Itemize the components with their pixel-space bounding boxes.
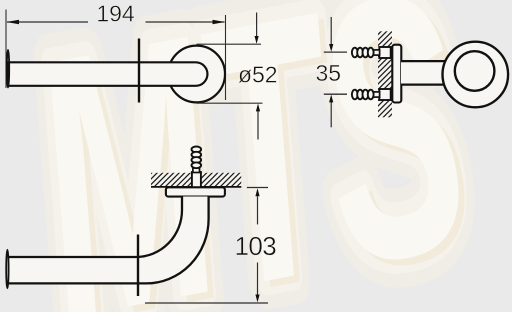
dim 103 up arrow: [257, 196, 259, 224]
dia52 up arrow: [257, 111, 259, 140]
extension line right: [225, 15, 227, 100]
wall disc circle: [168, 46, 225, 103]
rod end cap: [7, 50, 9, 88]
svg-text:194: 194: [96, 1, 135, 27]
dia52 top tangent line: [197, 43, 262, 45]
dim 35 down arrow: [330, 17, 332, 45]
arrowhead right: [213, 20, 226, 25]
dimension line 194: [7, 21, 225, 23]
dim 103 down arrow: [257, 263, 259, 295]
dim 35 up arrow: [330, 102, 332, 127]
cross line: [137, 235, 139, 297]
wall hatch: [151, 173, 241, 187]
wall plate (bottom view): [166, 187, 225, 196]
extension line left: [5, 10, 7, 89]
arrowhead left: [7, 20, 20, 25]
rod end cap: [6, 250, 8, 288]
ring inner: [455, 51, 495, 91]
bent tube fill: [9, 197, 209, 284]
arm fill: [401, 62, 451, 83]
arm lines: [402, 61, 451, 85]
dim 103 bottom extension line: [145, 302, 268, 304]
screw bottom: [352, 89, 391, 100]
dia52 down arrow: [256, 13, 258, 37]
wall face line: [151, 186, 241, 188]
wall hatch: [378, 31, 392, 117]
tube outer edge: [9, 197, 209, 284]
tube inner edge: [9, 197, 183, 258]
dim 35 ticks: [324, 52, 347, 94]
svg-text:35: 35: [316, 60, 342, 86]
svg-text:ø52: ø52: [238, 61, 278, 87]
rod (bar): [8, 62, 207, 86]
screw vertical: [192, 147, 202, 188]
svg-text:103: 103: [235, 231, 277, 261]
dia52 bottom tangent line: [197, 102, 263, 104]
dim 103 top tick: [247, 187, 268, 189]
cross line: [138, 39, 140, 103]
screw top: [352, 47, 391, 58]
ring outer: [443, 42, 509, 108]
wall plate (side): [392, 45, 401, 103]
